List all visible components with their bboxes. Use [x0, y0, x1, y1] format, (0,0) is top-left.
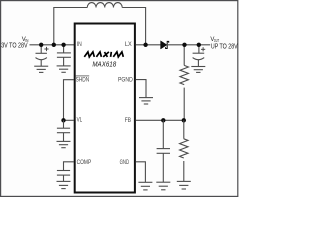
svg-text:3V TO 28V: 3V TO 28V	[1, 42, 28, 49]
logo MAXIM	[84, 52, 123, 57]
plus sign C3	[201, 47, 205, 51]
capacitor C2 input ceramic	[57, 45, 71, 66]
ground for C2	[57, 66, 71, 72]
wire GND pin to ground	[136, 162, 146, 183]
svg-text:PGND: PGND	[118, 77, 133, 84]
ground for C5	[57, 181, 71, 188]
capacitor C4 VL bypass	[57, 120, 70, 141]
ground for PGND	[139, 98, 153, 104]
node VOUT label	[210, 37, 238, 51]
ground for GND pin	[138, 182, 152, 190]
diode D1 schottky	[161, 41, 169, 49]
svg-text:GND: GND	[120, 159, 130, 166]
ground for C4	[57, 141, 71, 147]
wire inductor to LX	[122, 8, 145, 45]
border frame	[1, 1, 238, 197]
wire VL pin	[64, 119, 75, 121]
capacitor C5 comp	[57, 171, 70, 182]
wire VIN input rail	[30, 44, 75, 46]
svg-text:COMP: COMP	[77, 159, 92, 166]
svg-text:FB: FB	[125, 117, 131, 124]
svg-text:SHDN: SHDN	[76, 76, 90, 83]
wire COMP pin	[64, 162, 75, 171]
node VIN label	[1, 37, 28, 49]
ground for R2	[177, 181, 191, 189]
svg-text:IN: IN	[77, 41, 82, 48]
wire SHDN tie down to VL	[64, 80, 75, 121]
capacitor C1 input electrolytic	[36, 45, 47, 66]
wire LX to diode	[136, 44, 161, 46]
inductor L1	[87, 3, 122, 8]
wire PGND to ground	[136, 80, 146, 98]
junction dots VOUT rail	[182, 43, 186, 47]
svg-text:LX: LX	[125, 41, 133, 48]
resistor R2 lower feedback	[180, 120, 188, 181]
capacitor C6 feedforward	[157, 120, 170, 182]
ground for C1	[34, 66, 48, 72]
svg-text:VL: VL	[77, 117, 83, 124]
wire diode to VOUT	[168, 44, 210, 46]
capacitor C3 output electrolytic	[193, 45, 205, 67]
ground for C3	[191, 67, 205, 73]
svg-text:UP TO 28V: UP TO 28V	[211, 43, 238, 50]
wire FB rail	[136, 119, 184, 121]
plus sign C1	[44, 47, 48, 51]
resistor R1 upper feedback	[180, 45, 188, 121]
junction dots on VIN rail	[39, 43, 43, 47]
ground for C6	[156, 182, 170, 190]
junction dot FB cap	[161, 118, 165, 122]
junction dot FB divider	[182, 118, 186, 122]
wire inductor loop from VIN node up and across to LX	[54, 8, 88, 45]
junction dot VL node	[61, 118, 65, 122]
svg-text:MAX618: MAX618	[92, 61, 116, 68]
svg-text:OUT: OUT	[214, 38, 219, 43]
IC U1 MAX618	[75, 24, 135, 193]
junction dot LX node	[143, 43, 147, 47]
